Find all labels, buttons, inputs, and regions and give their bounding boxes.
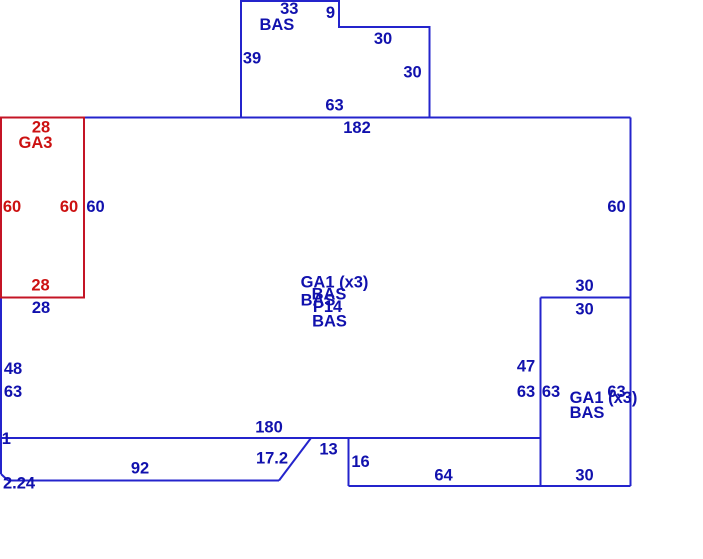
garage GA3 red outline	[1, 118, 84, 298]
svg-text:60: 60	[3, 198, 21, 216]
svg-text:30: 30	[575, 301, 593, 319]
svg-text:9: 9	[326, 4, 335, 22]
svg-text:60: 60	[60, 198, 78, 216]
svg-text:GA3: GA3	[19, 134, 53, 152]
svg-text:48: 48	[4, 360, 22, 378]
svg-text:16: 16	[351, 453, 369, 471]
porch strip diagonal (17.2)	[279, 438, 311, 481]
upper BAS addition outline	[241, 1, 430, 118]
svg-text:2.24: 2.24	[3, 475, 36, 493]
svg-text:30: 30	[575, 467, 593, 485]
svg-text:30: 30	[403, 64, 421, 82]
svg-text:180: 180	[255, 419, 283, 437]
svg-text:60: 60	[607, 198, 625, 216]
svg-text:63: 63	[325, 97, 343, 115]
svg-text:BAS: BAS	[312, 313, 347, 331]
main outline top edge (182)	[84, 117, 631, 119]
svg-text:60: 60	[86, 198, 104, 216]
svg-text:17.2: 17.2	[256, 450, 288, 468]
svg-text:BAS: BAS	[570, 404, 605, 422]
main bottom edge (180)	[0, 437, 541, 439]
svg-text:92: 92	[131, 460, 149, 478]
svg-text:39: 39	[243, 50, 261, 68]
main outline right edge (60/63)	[630, 118, 632, 487]
svg-text:63: 63	[542, 383, 560, 401]
svg-text:13: 13	[319, 441, 337, 459]
svg-text:30: 30	[374, 30, 392, 48]
porch strip bottom edge (92)	[8, 480, 279, 482]
bottom edge y=486 (64 / 30)	[349, 485, 631, 487]
svg-text:64: 64	[434, 467, 453, 485]
svg-text:182: 182	[343, 119, 371, 137]
step at right side (30)	[541, 297, 631, 299]
blue segment under garage bottom (28)	[1, 297, 84, 299]
svg-text:BAS: BAS	[259, 16, 294, 34]
interior vertical x=540 (47/63/63)	[540, 298, 542, 487]
svg-text:30: 30	[575, 277, 593, 295]
svg-text:63: 63	[517, 383, 535, 401]
notch vertical (16)	[348, 438, 350, 486]
blue vertical right of garage (60)	[83, 118, 85, 298]
svg-text:1: 1	[2, 430, 11, 448]
svg-text:28: 28	[32, 299, 50, 317]
svg-text:28: 28	[31, 277, 49, 295]
left edge below garage (48/63)	[0, 298, 2, 475]
svg-text:47: 47	[517, 358, 535, 376]
svg-text:63: 63	[4, 383, 22, 401]
tiny corner diagonal (2.24)	[1, 474, 8, 481]
